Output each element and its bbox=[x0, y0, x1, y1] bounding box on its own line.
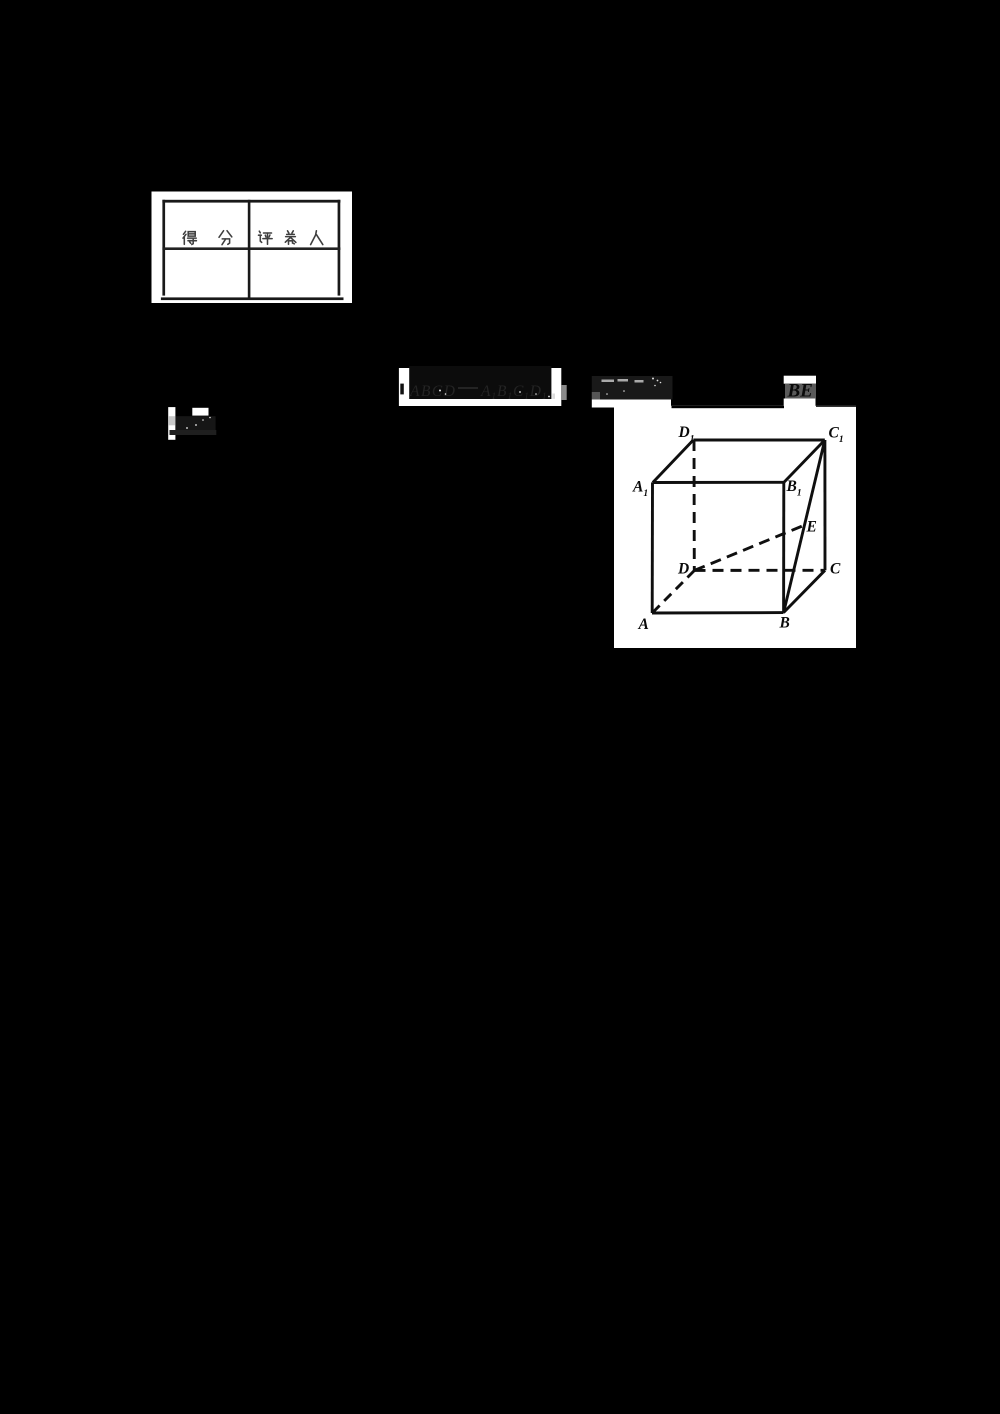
BE patch bottom white bbox=[784, 399, 816, 407]
edge B-C bbox=[784, 570, 826, 612]
figure white box bbox=[614, 406, 856, 648]
dashed edge D-C bbox=[695, 569, 826, 572]
char 卷 bbox=[285, 231, 296, 244]
table top border bbox=[162, 200, 340, 203]
diagonal C1-B bbox=[784, 440, 825, 613]
table bottom border bbox=[161, 297, 344, 300]
formula patch 2 gray block bbox=[592, 392, 600, 400]
BE patch top white band bbox=[784, 376, 816, 384]
edge B1-B bbox=[782, 482, 785, 612]
edge D1-C1 bbox=[693, 439, 825, 442]
edge B1-C1 bbox=[784, 440, 825, 482]
解析 white rect bbox=[192, 408, 208, 416]
char 得 bbox=[183, 231, 196, 244]
解析 gray segment on bar bbox=[168, 416, 175, 425]
table middle horizontal line bbox=[162, 247, 340, 250]
svg-text:C: C bbox=[830, 561, 841, 578]
svg-text:A: A bbox=[638, 616, 649, 633]
char 人 bbox=[311, 231, 323, 245]
BE patch gray band bbox=[785, 384, 816, 399]
解析 speckles bbox=[186, 417, 211, 429]
解析 white bar bbox=[168, 407, 175, 440]
svg-text:B: B bbox=[779, 614, 790, 631]
dashed edge D-A bbox=[652, 570, 694, 613]
formula patch 1 subscript fringe bbox=[552, 394, 555, 399]
black notch above figure box center bbox=[672, 406, 785, 408]
dashed line D-E bbox=[695, 525, 805, 570]
解析 dark glyphs bbox=[176, 416, 216, 432]
table center divider bbox=[248, 200, 251, 300]
edge A1-A bbox=[651, 482, 654, 613]
gray fringe right of patch 1 bbox=[561, 385, 566, 400]
char 评 bbox=[259, 231, 273, 244]
formula patch 1 inner black bbox=[409, 366, 551, 399]
char 分 bbox=[219, 231, 232, 245]
cube edges bbox=[652, 440, 825, 613]
svg-text:D: D bbox=[677, 561, 689, 578]
table right border bbox=[338, 200, 341, 296]
edge A-B bbox=[652, 611, 784, 614]
formula patch 1 speckles bbox=[439, 390, 550, 398]
svg-text:E: E bbox=[806, 518, 817, 535]
formula patch 1 left col mark bbox=[400, 384, 404, 395]
解析 glyph bottoms bbox=[170, 430, 217, 435]
svg-text:BE: BE bbox=[787, 381, 813, 402]
svg-text:A1B1C1D1: A1B1C1D1 bbox=[480, 383, 547, 401]
formula patch 1 white frame bbox=[399, 368, 561, 406]
table left border bbox=[162, 200, 165, 296]
edge A1-D1 bbox=[653, 440, 694, 483]
black notch above figure box right bbox=[816, 406, 856, 407]
formula patch 1 dash bbox=[458, 387, 478, 389]
dashed edge D1-D bbox=[693, 440, 696, 570]
edge C1-C bbox=[823, 440, 826, 570]
formula patch 2 speckles bbox=[606, 378, 661, 395]
formula patch 2 dark text block bbox=[592, 376, 673, 400]
formula patch 2 light bars bbox=[602, 379, 644, 383]
svg-text:ABCD: ABCD bbox=[409, 383, 456, 400]
edge A1-B1 bbox=[653, 481, 784, 484]
score table white background bbox=[152, 192, 353, 304]
formula patch 2 white band bbox=[592, 400, 671, 408]
